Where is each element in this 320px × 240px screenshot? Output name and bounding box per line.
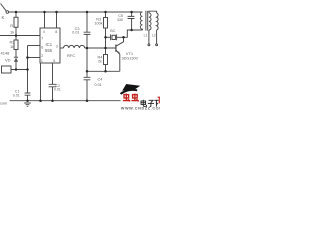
svg-text:1: 1 <box>41 59 43 63</box>
svg-text:IC1: IC1 <box>46 42 53 47</box>
svg-text:4: 4 <box>43 30 45 34</box>
svg-text:0.01: 0.01 <box>95 83 102 87</box>
svg-text:L1: L1 <box>144 34 148 38</box>
svg-text:555: 555 <box>45 48 53 53</box>
svg-text:6: 6 <box>41 45 43 49</box>
svg-text:BC: BC <box>110 29 116 33</box>
svg-text:8: 8 <box>55 30 57 34</box>
svg-text:1k: 1k <box>10 44 14 49</box>
svg-text:100k: 100k <box>95 22 103 26</box>
svg-text:3: 3 <box>56 45 58 49</box>
svg-text:L2: L2 <box>152 34 156 38</box>
svg-text:0.01: 0.01 <box>54 88 61 92</box>
svg-text:2k: 2k <box>98 60 102 64</box>
svg-text:K: K <box>2 15 5 20</box>
svg-text:R1: R1 <box>10 23 16 28</box>
svg-text:4148: 4148 <box>1 51 11 56</box>
svg-text:VD: VD <box>5 58 11 63</box>
svg-text:0.01: 0.01 <box>13 93 20 97</box>
svg-text:C4: C4 <box>98 77 103 81</box>
svg-text:1k: 1k <box>10 29 14 34</box>
svg-text:330: 330 <box>117 18 123 22</box>
svg-text:RFC: RFC <box>67 53 75 58</box>
svg-text:7: 7 <box>41 37 43 41</box>
svg-text:3DG1300: 3DG1300 <box>122 57 138 61</box>
svg-text:VT1: VT1 <box>126 51 134 56</box>
svg-text:5: 5 <box>53 59 55 63</box>
svg-text:0.01: 0.01 <box>72 30 79 34</box>
svg-text:2: 2 <box>41 54 43 58</box>
svg-text:com: com <box>0 101 7 105</box>
svg-text:WWW.CNDZZ.COM: WWW.CNDZZ.COM <box>121 107 160 111</box>
